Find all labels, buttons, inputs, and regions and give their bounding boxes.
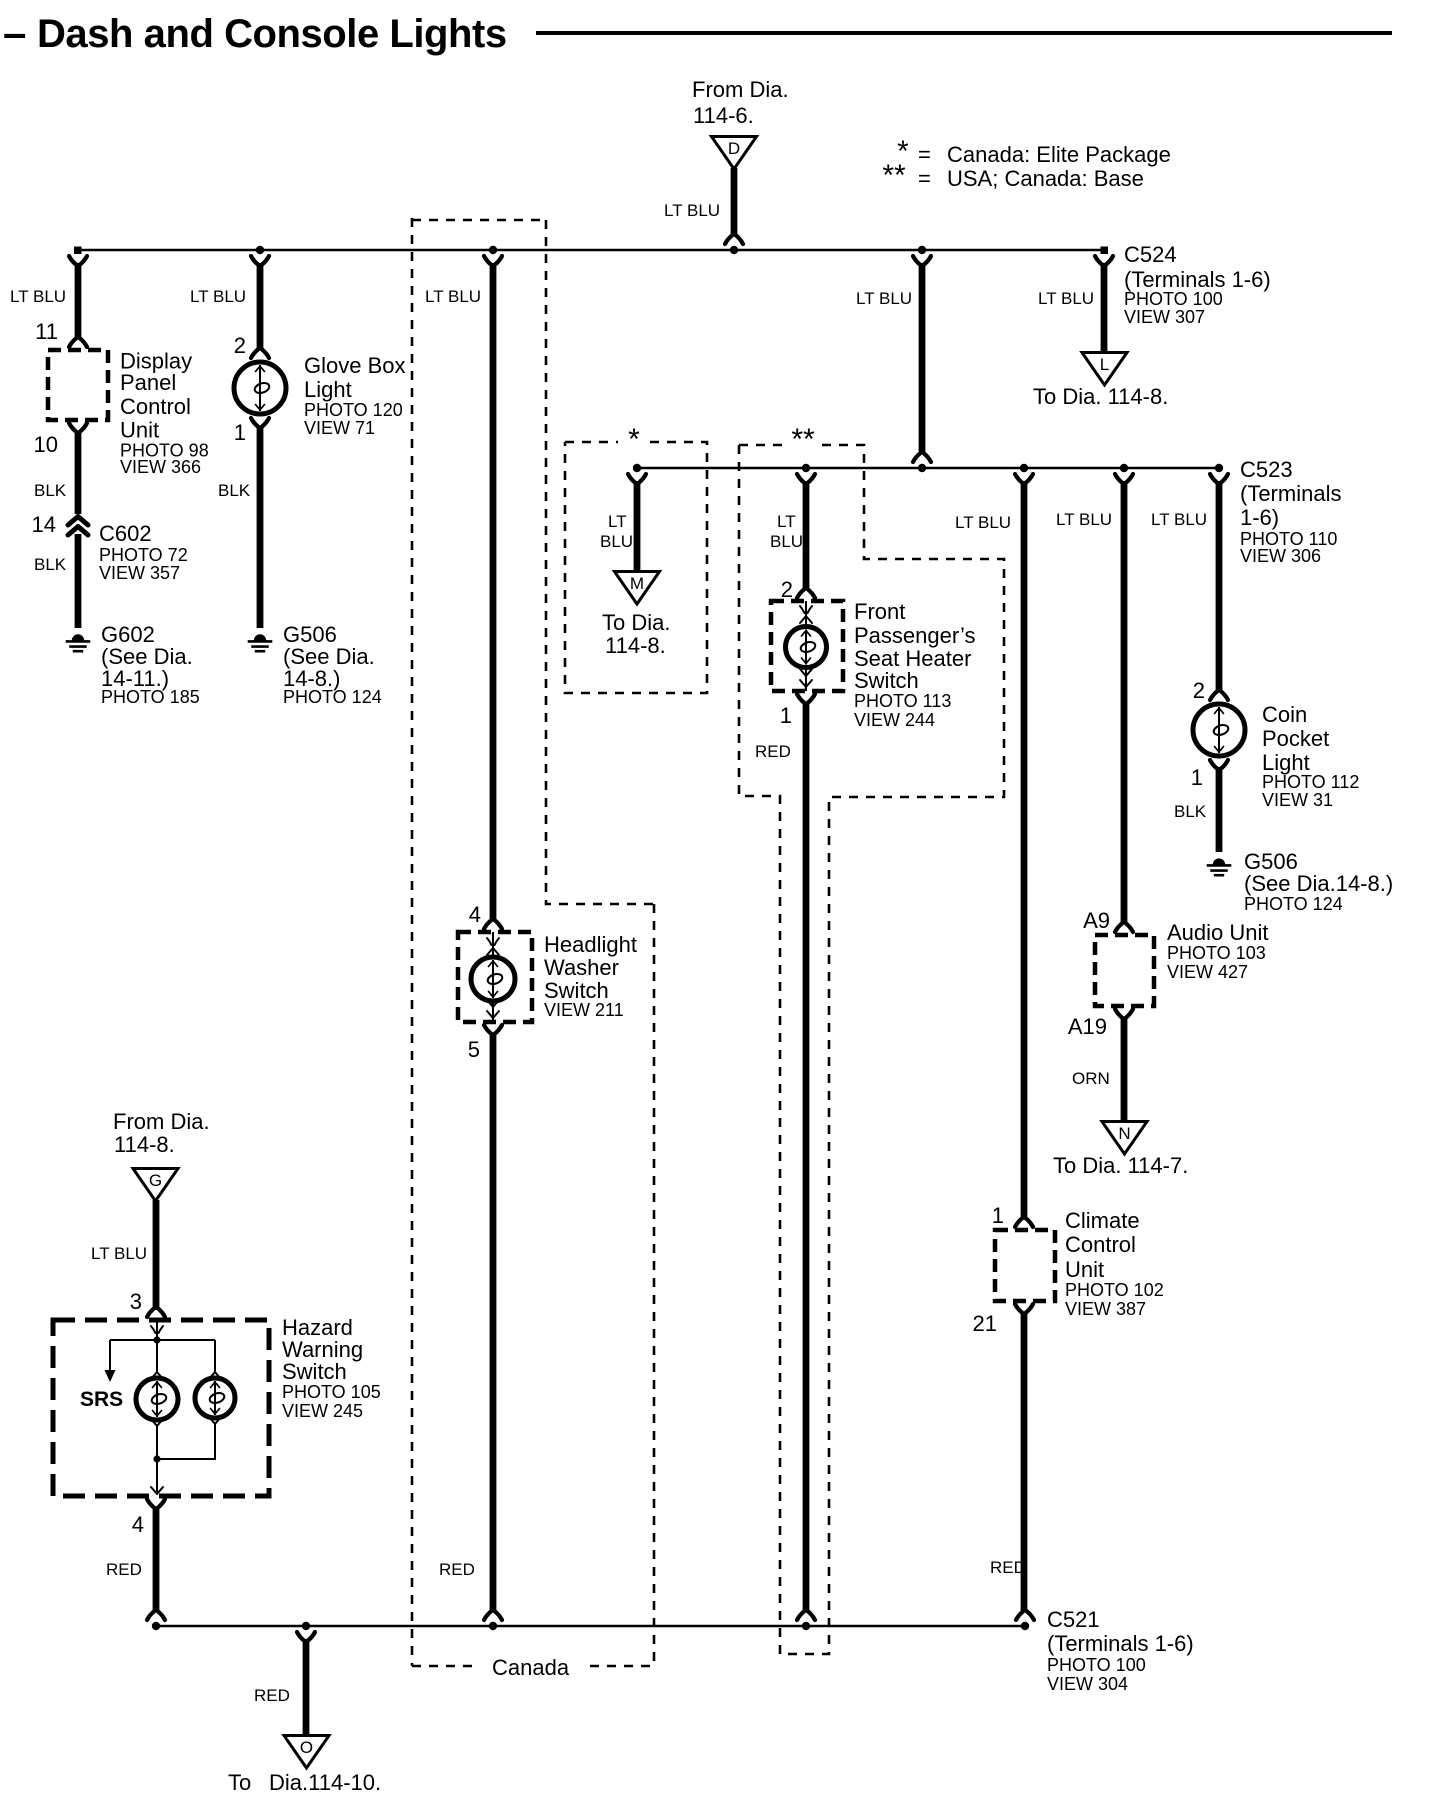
svg-text:**: ** bbox=[791, 423, 815, 456]
svg-text:Front: Front bbox=[854, 599, 905, 624]
wire: C602 to ground G602 bbox=[75, 534, 82, 628]
svg-text:Passenger’s: Passenger’s bbox=[854, 623, 975, 648]
svg-text:4: 4 bbox=[469, 902, 481, 927]
glove box light lamp bbox=[234, 362, 286, 414]
seat heater internal wire (bottom) bbox=[805, 667, 807, 691]
svg-text:LT BLU: LT BLU bbox=[190, 287, 246, 306]
svg-text:(See Dia.14-8.): (See Dia.14-8.) bbox=[1244, 871, 1393, 896]
svg-text:Control: Control bbox=[120, 394, 191, 419]
node: bus3 left end (hazard) bbox=[152, 1622, 160, 1630]
svg-text:VIEW 357: VIEW 357 bbox=[99, 563, 180, 583]
terminal claw: hazard pin 4 bbox=[147, 1499, 165, 1508]
svg-text:BLK: BLK bbox=[1174, 802, 1207, 821]
terminal claw: C524 branch leaves bus1 bbox=[1095, 256, 1113, 265]
terminal claw: coin branch leaves bus2 bbox=[1210, 474, 1228, 483]
svg-text:Washer: Washer bbox=[544, 955, 619, 980]
terminal claw: glove lamp pin 2 bbox=[251, 349, 269, 358]
svg-text:114-8.: 114-8. bbox=[114, 1132, 175, 1157]
svg-text:C524: C524 bbox=[1124, 242, 1177, 267]
svg-text:2: 2 bbox=[781, 577, 793, 602]
svg-text:PHOTO 72: PHOTO 72 bbox=[99, 545, 188, 565]
terminal claw: coin lamp pin 1 bbox=[1210, 760, 1228, 769]
svg-text:D: D bbox=[728, 139, 740, 158]
SRS feed arrow bbox=[105, 1370, 116, 1382]
terminal claw: climate pin 21 bbox=[1015, 1304, 1033, 1313]
wire: bus2 to audio unit bbox=[1121, 481, 1128, 924]
svg-text:=: = bbox=[918, 166, 931, 191]
svg-text:1: 1 bbox=[992, 1203, 1004, 1228]
svg-text:Canada: Elite Package: Canada: Elite Package bbox=[947, 142, 1171, 167]
Canada region dashed outline bbox=[412, 218, 654, 1666]
svg-text:LT BLU: LT BLU bbox=[664, 201, 720, 220]
hazard internal exit arrow bbox=[151, 1487, 163, 1494]
coin pocket light lamp bbox=[1193, 704, 1245, 756]
wire: hazard switch to bus 3 bbox=[153, 1507, 160, 1612]
connector triangle L bbox=[1082, 353, 1127, 386]
wire: bus2 to seat heater switch bbox=[803, 481, 810, 590]
seat heater internal wire (top) bbox=[805, 601, 807, 627]
terminal claw: link wire at bus2 bbox=[913, 453, 931, 462]
svg-text:VIEW 306: VIEW 306 bbox=[1240, 546, 1321, 566]
option box * (Canada: Elite Package) bbox=[565, 442, 707, 693]
svg-text:VIEW 387: VIEW 387 bbox=[1065, 1299, 1146, 1319]
svg-text:BLU: BLU bbox=[770, 532, 803, 551]
hazard lamp terminals (bottom) bbox=[151, 1419, 163, 1426]
node: bus1 left end bbox=[74, 247, 82, 255]
wire: display unit to connector C602 bbox=[75, 431, 82, 514]
wire: bus3 to triangle O bbox=[303, 1639, 310, 1735]
bus wire 1 (top horizontal) bbox=[74, 249, 1104, 251]
svg-text:LT BLU: LT BLU bbox=[1151, 510, 1207, 529]
svg-text:PHOTO 185: PHOTO 185 bbox=[101, 687, 200, 707]
node: bus2 right end (coin pocket) bbox=[1215, 464, 1223, 472]
svg-text:C521: C521 bbox=[1047, 1607, 1100, 1632]
washer switch internal terminals (bottom) bbox=[487, 1000, 499, 1007]
bus wire 2 (middle horizontal) bbox=[633, 467, 1219, 469]
svg-text:Dash and Console Lights: Dash and Console Lights bbox=[37, 12, 507, 56]
svg-text:VIEW 307: VIEW 307 bbox=[1124, 307, 1205, 327]
node: bus3 / seat heater wire bbox=[802, 1622, 810, 1630]
svg-text:Audio Unit: Audio Unit bbox=[1167, 920, 1269, 945]
svg-text:VIEW 71: VIEW 71 bbox=[304, 418, 375, 438]
svg-text:LT BLU: LT BLU bbox=[856, 289, 912, 308]
node: bus2 left end (M branch) bbox=[633, 464, 641, 472]
svg-text:LT: LT bbox=[777, 512, 796, 531]
svg-text:To Dia.: To Dia. bbox=[602, 610, 670, 635]
climate control unit U2 dashed box bbox=[995, 1230, 1055, 1301]
svg-text:From Dia.: From Dia. bbox=[692, 77, 789, 102]
svg-text:RED: RED bbox=[254, 1686, 290, 1705]
svg-text:PHOTO 103: PHOTO 103 bbox=[1167, 943, 1266, 963]
node: bus3 / washer wire bbox=[489, 1622, 497, 1630]
node: bus1 right end C524 bbox=[1101, 247, 1109, 255]
seat heater switch lamp bbox=[786, 627, 827, 668]
svg-text:LT BLU: LT BLU bbox=[1038, 289, 1094, 308]
svg-text:Switch: Switch bbox=[282, 1359, 347, 1384]
node: bus2 / climate branch bbox=[1020, 464, 1028, 472]
svg-text:1: 1 bbox=[780, 703, 792, 728]
terminal claw: climate wire at bus 3 bbox=[1016, 1611, 1034, 1620]
wire: bus2 to coin pocket light bbox=[1216, 481, 1223, 692]
wire: D triangle to bus 1 bbox=[731, 168, 738, 236]
svg-text:C523: C523 bbox=[1240, 457, 1293, 482]
terminal claw: audio pin A9 bbox=[1115, 923, 1133, 932]
svg-text:L: L bbox=[1100, 355, 1109, 374]
svg-text:Control: Control bbox=[1065, 1232, 1136, 1257]
svg-text:Canada: Canada bbox=[492, 1655, 570, 1680]
svg-text:M: M bbox=[630, 574, 644, 593]
connector triangle D bbox=[712, 137, 757, 170]
terminal claw: hazard pin 3 bbox=[147, 1308, 165, 1317]
node: bus3 / O branch bbox=[302, 1622, 310, 1630]
node: bus1 / washer branch bbox=[489, 246, 497, 254]
terminal claw: audio pin A19 bbox=[1115, 1009, 1133, 1018]
svg-text:PHOTO 100: PHOTO 100 bbox=[1047, 1655, 1146, 1675]
svg-text:10: 10 bbox=[34, 432, 58, 457]
svg-text:PHOTO 124: PHOTO 124 bbox=[1244, 894, 1343, 914]
terminal claw: washer pin 4 bbox=[484, 920, 502, 929]
connector triangle N bbox=[1102, 1122, 1147, 1155]
svg-text:Dia.114-10.: Dia.114-10. bbox=[269, 1770, 381, 1795]
svg-text:VIEW 366: VIEW 366 bbox=[120, 457, 201, 477]
ground G602 bbox=[72, 634, 84, 640]
svg-text:VIEW 245: VIEW 245 bbox=[282, 1401, 363, 1421]
terminal claw: climate branch leaves bus2 bbox=[1015, 474, 1033, 483]
svg-text:BLU: BLU bbox=[600, 532, 633, 551]
svg-text:C602: C602 bbox=[99, 521, 152, 546]
terminal claw: washer branch leaves bus1 bbox=[484, 256, 502, 265]
wire: washer switch to bus 3 bbox=[490, 1033, 497, 1612]
svg-text:Switch: Switch bbox=[854, 668, 919, 693]
hazard warning lamp 1 bbox=[136, 1378, 178, 1420]
connector triangle G bbox=[133, 1169, 178, 1202]
connector triangle M bbox=[615, 572, 660, 605]
svg-text:LT BLU: LT BLU bbox=[955, 513, 1011, 532]
wire: seat heater switch to bus 3 bbox=[803, 702, 810, 1612]
washer switch internal wire (top) bbox=[492, 932, 494, 957]
title rule bbox=[536, 31, 1392, 35]
svg-text:3: 3 bbox=[130, 1289, 142, 1314]
node: hazard internal bottom junction bbox=[153, 1455, 160, 1462]
connector triangle O bbox=[284, 1736, 329, 1769]
svg-text:BLK: BLK bbox=[34, 555, 67, 574]
svg-text:Headlight: Headlight bbox=[544, 932, 637, 957]
svg-text:LT BLU: LT BLU bbox=[1056, 510, 1112, 529]
terminal claw: display branch leaves bus1 bbox=[69, 256, 87, 265]
seat heater internal terminals (bottom) bbox=[800, 669, 812, 676]
front passenger's seat heater switch S2 dashed box bbox=[771, 601, 843, 691]
svg-text:PHOTO 102: PHOTO 102 bbox=[1065, 1280, 1164, 1300]
svg-text:PHOTO 113: PHOTO 113 bbox=[854, 691, 951, 711]
terminal claw: O branch leaves bus3 bbox=[297, 1632, 315, 1641]
terminal claw: seat heater pin 1 bbox=[797, 694, 815, 703]
svg-text:RED: RED bbox=[990, 1558, 1026, 1577]
svg-text:Glove Box: Glove Box bbox=[304, 353, 406, 378]
hazard warning lamp 2 bbox=[195, 1378, 235, 1418]
svg-text:ORN: ORN bbox=[1072, 1069, 1110, 1088]
terminal claw: M branch leaves bus2 bbox=[628, 474, 646, 483]
node: bus1 / bus2 link bbox=[918, 246, 926, 254]
svg-text:11: 11 bbox=[35, 319, 58, 344]
node: bus2 / link wire bbox=[918, 464, 926, 472]
svg-text:O: O bbox=[300, 1738, 313, 1757]
svg-text:RED: RED bbox=[106, 1560, 142, 1579]
terminal claw: washer pin 5 bbox=[484, 1025, 502, 1034]
svg-text:USA; Canada: Base: USA; Canada: Base bbox=[947, 166, 1144, 191]
svg-text:114-6.: 114-6. bbox=[693, 103, 754, 128]
svg-text:To Dia. 114-7.: To Dia. 114-7. bbox=[1053, 1153, 1188, 1178]
terminal claw: glove branch leaves bus1 bbox=[251, 256, 269, 265]
terminal claw: pin 11 bbox=[69, 338, 87, 347]
wire: bus1 to triangle L bbox=[1101, 263, 1108, 352]
svg-text:Unit: Unit bbox=[1065, 1257, 1104, 1282]
svg-text:From Dia.: From Dia. bbox=[113, 1109, 210, 1134]
svg-text:RED: RED bbox=[755, 742, 791, 761]
svg-text:G: G bbox=[149, 1171, 162, 1190]
terminal claw: audio branch leaves bus2 bbox=[1115, 474, 1133, 483]
svg-text:PHOTO 124: PHOTO 124 bbox=[283, 687, 382, 707]
wire: coin pocket light to ground G506 bbox=[1216, 767, 1223, 852]
ground G506 (coin pocket) bbox=[1213, 858, 1225, 864]
svg-text:To Dia. 114-8.: To Dia. 114-8. bbox=[1033, 384, 1168, 409]
svg-text:BLK: BLK bbox=[218, 481, 251, 500]
bus wire 3 (bottom horizontal) bbox=[156, 1625, 1025, 1627]
wire: bus2 to triangle M bbox=[634, 481, 641, 571]
svg-text:Unit: Unit bbox=[120, 418, 159, 443]
terminal claw: pin 10 bbox=[69, 423, 87, 432]
node: bus3 right end C521 bbox=[1021, 1622, 1029, 1630]
svg-text:A19: A19 bbox=[1068, 1014, 1107, 1039]
wire: bus1 to display panel control unit bbox=[75, 263, 82, 339]
svg-text:14: 14 bbox=[32, 512, 56, 537]
terminal claw: glove lamp pin 1 bbox=[251, 418, 269, 427]
display panel control unit U1 dashed box bbox=[48, 350, 108, 420]
terminal claw: coin lamp pin 2 bbox=[1210, 691, 1228, 700]
svg-text:(Terminals 1-6): (Terminals 1-6) bbox=[1047, 1631, 1194, 1656]
wire: bus1 to bus2 link bbox=[919, 263, 926, 454]
svg-text:**: ** bbox=[882, 159, 906, 192]
svg-text:Pocket: Pocket bbox=[1262, 726, 1329, 751]
wire: climate control unit to bus 3 bbox=[1021, 1312, 1028, 1612]
hazard switch internal entry bbox=[151, 1326, 163, 1333]
node: bus1 / glove box branch bbox=[256, 246, 264, 254]
svg-text:VIEW 31: VIEW 31 bbox=[1262, 790, 1333, 810]
svg-text:RED: RED bbox=[439, 1560, 475, 1579]
hazard internal branch wires (bottom) bbox=[157, 1422, 215, 1492]
terminal claw: link wire leaves bus1 bbox=[913, 256, 931, 265]
svg-text:VIEW 427: VIEW 427 bbox=[1167, 962, 1248, 982]
wire: bus1 to glove box light bbox=[257, 263, 264, 350]
terminal claw: seat heater branch leaves bus2 bbox=[797, 474, 815, 483]
svg-text:LT: LT bbox=[608, 512, 627, 531]
terminal claw: seat heater pin 2 bbox=[797, 589, 815, 598]
svg-text:Panel: Panel bbox=[120, 370, 176, 395]
hazard internal branch wires (top) bbox=[110, 1340, 215, 1374]
hazard warning switch S3 dashed box bbox=[53, 1320, 269, 1496]
svg-text:Climate: Climate bbox=[1065, 1208, 1140, 1233]
svg-text:5: 5 bbox=[468, 1037, 480, 1062]
svg-text:4: 4 bbox=[132, 1512, 144, 1537]
svg-text:21: 21 bbox=[973, 1311, 997, 1336]
svg-text:SRS: SRS bbox=[80, 1388, 123, 1411]
node: hazard internal top junction bbox=[153, 1336, 160, 1343]
svg-text:=: = bbox=[918, 142, 931, 167]
svg-text:Coin: Coin bbox=[1262, 702, 1307, 727]
svg-text:LT BLU: LT BLU bbox=[91, 1244, 147, 1263]
audio unit U3 dashed box bbox=[1095, 935, 1154, 1006]
svg-text:N: N bbox=[1118, 1124, 1130, 1143]
terminal claw: climate pin 1 bbox=[1015, 1218, 1033, 1227]
svg-text:PHOTO 120: PHOTO 120 bbox=[304, 400, 403, 420]
wire: audio unit to triangle N bbox=[1121, 1017, 1128, 1121]
svg-text:A9: A9 bbox=[1083, 908, 1110, 933]
svg-text:LT BLU: LT BLU bbox=[425, 287, 481, 306]
connector C602 chevrons bbox=[68, 517, 88, 526]
terminal claw: washer wire at bus 3 bbox=[484, 1611, 502, 1620]
svg-text:PHOTO 100: PHOTO 100 bbox=[1124, 289, 1223, 309]
terminal claw: hazard wire at bus 3 bbox=[147, 1611, 165, 1620]
seat heater internal terminals (top) bbox=[800, 606, 812, 613]
washer switch internal terminals (top) bbox=[487, 938, 499, 945]
svg-text:VIEW 244: VIEW 244 bbox=[854, 710, 935, 730]
svg-text:*: * bbox=[628, 423, 640, 456]
washer switch internal wire (bottom) bbox=[492, 1001, 494, 1022]
svg-text:VIEW 304: VIEW 304 bbox=[1047, 1674, 1128, 1694]
svg-text:2: 2 bbox=[234, 333, 246, 358]
headlight washer switch S1 dashed box bbox=[458, 932, 532, 1022]
ground G506 (glove box) bbox=[254, 634, 266, 640]
svg-text:LT BLU: LT BLU bbox=[10, 287, 66, 306]
svg-text:1: 1 bbox=[1191, 765, 1203, 790]
svg-text:2: 2 bbox=[1193, 678, 1205, 703]
wire: bus2 to climate control unit bbox=[1021, 481, 1028, 1219]
terminal claw at bus 1 (D wire) bbox=[725, 235, 743, 244]
wire: glove box light to ground G506 bbox=[257, 427, 264, 628]
headlight washer switch lamp bbox=[471, 957, 515, 1001]
node: bus2 / audio branch bbox=[1120, 464, 1128, 472]
wire: triangle G to hazard switch bbox=[153, 1200, 160, 1310]
svg-text:–: – bbox=[3, 9, 26, 56]
svg-text:1: 1 bbox=[234, 420, 246, 445]
svg-text:BLK: BLK bbox=[34, 481, 67, 500]
svg-text:VIEW 211: VIEW 211 bbox=[544, 1000, 624, 1020]
svg-text:1-6): 1-6) bbox=[1240, 505, 1279, 530]
node: bus2 / seat heater branch bbox=[802, 464, 810, 472]
hazard lamp terminals (top) bbox=[151, 1372, 163, 1379]
option region ** (USA; Canada: Base) bbox=[739, 445, 1004, 1654]
node: bus1 / D feed bbox=[730, 246, 738, 254]
terminal claw: seat heater wire at bus 3 bbox=[797, 1611, 815, 1620]
wire: bus1 to headlight washer switch bbox=[490, 263, 497, 920]
svg-text:114-8.: 114-8. bbox=[605, 633, 666, 658]
svg-text:PHOTO 105: PHOTO 105 bbox=[282, 1382, 381, 1402]
svg-text:(Terminals: (Terminals bbox=[1240, 481, 1341, 506]
svg-text:To: To bbox=[228, 1770, 251, 1795]
svg-text:PHOTO 112: PHOTO 112 bbox=[1262, 772, 1359, 792]
svg-text:Light: Light bbox=[304, 377, 352, 402]
